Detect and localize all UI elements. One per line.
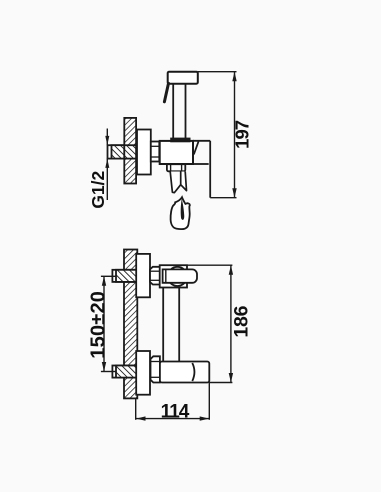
svg-text:G1/2: G1/2	[88, 170, 108, 208]
svg-text:150±20: 150±20	[87, 291, 109, 359]
svg-text:114: 114	[161, 401, 190, 422]
svg-text:186: 186	[231, 305, 253, 337]
svg-text:197: 197	[232, 120, 253, 149]
